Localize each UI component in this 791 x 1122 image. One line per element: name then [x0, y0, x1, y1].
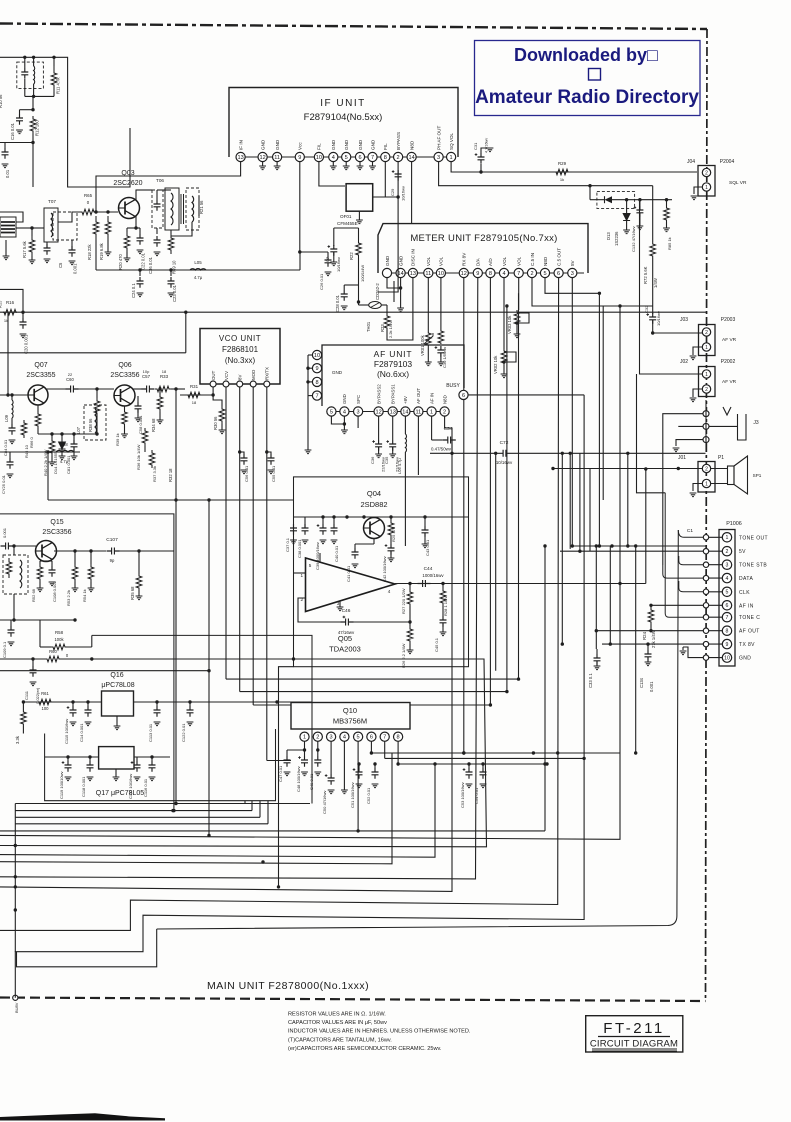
wire Q06 emitter: [124, 406, 126, 410]
wire VCO VCV down to jog: [225, 387, 227, 679]
wire D13 line: [590, 199, 605, 201]
svg-text:R10 56: R10 56: [0, 94, 3, 108]
capacitor C7 10/16wv: [333, 240, 335, 246]
capacitor C45 0.1: [442, 606, 444, 616]
svg-text:R19 6.8k: R19 6.8k: [99, 242, 104, 260]
svg-text:VOL: VOL: [502, 256, 507, 266]
svg-text:2: 2: [726, 549, 729, 555]
wire TH01 leads: [359, 304, 369, 306]
svg-text:C5: C5: [58, 262, 63, 268]
svg-text:10/16wv: 10/16wv: [656, 311, 661, 326]
svg-text:R72 5.6K: R72 5.6K: [643, 266, 648, 284]
wire J03 pin1 gnd: [693, 347, 702, 355]
svg-text:METER UNIT F2879105(No.7xx): METER UNIT F2879105(No.7xx): [410, 233, 557, 244]
svg-text:GND: GND: [739, 656, 751, 662]
capacitor C42 100/16wv: [390, 538, 392, 544]
svg-text:MB3756M: MB3756M: [333, 717, 367, 726]
wire pin3 down: [357, 416, 359, 428]
svg-text:SPC: SPC: [356, 395, 361, 404]
svg-text:D13: D13: [606, 232, 611, 240]
capacitor C109 0.1: [10, 620, 12, 626]
svg-text:6: 6: [726, 603, 729, 609]
svg-text:R17 5.6k: R17 5.6k: [22, 240, 27, 258]
AF UNIT pin 13: [388, 407, 397, 416]
wire IF-IN node down: [95, 200, 97, 212]
svg-text:C105: C105: [0, 530, 1, 540]
wire Q10 pin8 rail: [398, 763, 547, 765]
svg-text:R26 2.2 1/4W: R26 2.2 1/4W: [401, 643, 406, 668]
svg-text:0.001: 0.001: [649, 681, 654, 692]
svg-text:Q16: Q16: [110, 672, 123, 679]
svg-text:Q05: Q05: [338, 634, 352, 643]
VCO UNIT pin MOD: [250, 381, 256, 387]
svg-text:R61: R61: [41, 691, 49, 696]
capacitor C117 10/16wv: [136, 757, 138, 761]
wire R32 vertical: [175, 395, 177, 804]
svg-text:10/16wv: 10/16wv: [336, 257, 341, 272]
svg-text:C34: C34: [444, 426, 453, 432]
capacitor C72 10/16wv: [498, 450, 511, 457]
scanner black bar bottom-left: [0, 1113, 165, 1120]
svg-text:J02: J02: [680, 359, 688, 365]
svg-text:C45 0.1: C45 0.1: [434, 637, 439, 652]
svg-text:Q10: Q10: [343, 706, 357, 715]
svg-text:22: 22: [68, 372, 73, 377]
wire bus vertical from audio box corner: [279, 667, 294, 887]
svg-text:C57: C57: [142, 374, 151, 379]
svg-text:GND: GND: [385, 255, 390, 266]
svg-text:C29: C29: [390, 188, 395, 196]
wire Q17 out: [134, 756, 170, 758]
IF UNIT pin 6 (GND): [355, 152, 364, 161]
wire rail y353: [0, 352, 186, 354]
Q10 pin 8: [394, 732, 403, 741]
IF UNIT pin 10 (FIL): [314, 152, 323, 161]
svg-text:C40 0.01: C40 0.01: [334, 545, 339, 562]
wire vertical x599: [598, 293, 600, 546]
diode D13 arrow: [605, 196, 613, 203]
wire left partial rail4: [15, 823, 268, 825]
svg-text:C108 0.001: C108 0.001: [52, 581, 57, 602]
P1006 pin 2 (5V): [722, 547, 731, 556]
svg-text:R16: R16: [6, 300, 15, 305]
svg-text:A/D: A/D: [488, 258, 493, 266]
wire meter pin13 down: [398, 278, 413, 340]
svg-text:R25 470: R25 470: [391, 526, 396, 542]
wire bus vertical left A1: [208, 500, 210, 835]
wire VCO 8V down to jog: [239, 387, 241, 692]
METER UNIT pin 3 (5V): [568, 268, 577, 277]
wire Q03 bias bottom rail: [96, 269, 300, 271]
svg-text:4: 4: [343, 735, 346, 741]
svg-text:(No.3xx): (No.3xx): [225, 356, 256, 365]
P1006 pin 8 (AF OUT): [722, 626, 731, 635]
svg-text:100: 100: [42, 706, 50, 711]
svg-text:N8D: N8D: [442, 395, 447, 404]
capacitor C35 22/16wv: [392, 416, 394, 440]
svg-text:Q03: Q03: [121, 170, 134, 177]
svg-text:9: 9: [476, 271, 479, 277]
svg-text:2: 2: [705, 330, 708, 336]
capacitor C48 100/16wv: [301, 756, 308, 767]
wire IF pin9 Vcc down: [300, 162, 328, 252]
svg-text:SP1: SP1: [753, 473, 762, 478]
svg-text:8: 8: [397, 735, 400, 741]
svg-text:1: 1: [705, 185, 708, 191]
wire T06 top link: [157, 189, 171, 191]
wire left partial rail1: [15, 803, 245, 805]
IC Q16 uPC78L08 box: [102, 691, 134, 716]
wire jog y692: [240, 691, 507, 693]
svg-text:AF IN: AF IN: [429, 393, 434, 404]
svg-text:C119 100/10wv: C119 100/10wv: [59, 772, 64, 800]
wire Q07 base left: [0, 394, 28, 396]
svg-text:AF IN: AF IN: [739, 603, 754, 609]
T08 coil: [34, 66, 35, 84]
svg-text:J3: J3: [753, 420, 759, 426]
wire riser x186: [185, 312, 187, 353]
METER UNIT block outline: [378, 224, 588, 273]
Q10 pin 5: [354, 732, 363, 741]
wire meter pin12 down long: [463, 278, 465, 753]
svg-text:GND: GND: [342, 394, 347, 404]
IF UNIT pin 14 (N8D): [407, 152, 416, 161]
resistor R52 68: [37, 564, 43, 582]
svg-text:0.001: 0.001: [73, 263, 78, 274]
AF UNIT pin 12: [374, 407, 383, 416]
wire Q06 collector right: [133, 388, 142, 390]
wire J01 pin1 gnd hook: [693, 484, 702, 492]
wire R31 to VCO OUT: [180, 394, 213, 396]
P1006 pin 10 (GND): [722, 653, 731, 662]
speaker SP1: [728, 466, 735, 485]
svg-text:GND: GND: [370, 139, 375, 150]
svg-text:4.7/16wv: 4.7/16wv: [485, 138, 489, 153]
svg-text:(No.6xx): (No.6xx): [377, 369, 409, 379]
Q10 pin 6: [367, 732, 376, 741]
svg-text:1/4W: 1/4W: [653, 278, 658, 288]
wire node to T07: [32, 227, 44, 229]
svg-text:VCV: VCV: [224, 371, 229, 380]
resistor R19 6.8k: [105, 216, 111, 240]
wire meter pin14 gnd: [400, 278, 402, 308]
svg-text:R34 68: R34 68: [151, 418, 156, 432]
wire Q17 gnd: [115, 769, 117, 777]
svg-text:C38 0.001: C38 0.001: [297, 539, 302, 558]
IF UNIT pin 13 (IF IN): [236, 152, 245, 161]
node BU8V bottom-left terminal: [13, 995, 18, 1000]
svg-text:9: 9: [315, 366, 318, 372]
wire Q03 emitter down: [135, 216, 137, 228]
svg-text:AF OUT: AF OUT: [739, 629, 760, 635]
svg-text:INDUCTOR VALUES ARE IN HENRIES: INDUCTOR VALUES ARE IN HENRIES. UNLESS O…: [288, 1029, 471, 1035]
P1006 pin 3 (TONE STB): [722, 560, 731, 569]
svg-text:5V: 5V: [570, 259, 575, 266]
svg-text:IF UNIT: IF UNIT: [320, 98, 366, 109]
ground: [332, 162, 334, 166]
capacitor C16 0.01: [20, 109, 34, 111]
svg-text:RESISTOR VALUES ARE IN Ω. 1/16: RESISTOR VALUES ARE IN Ω. 1/16W.: [288, 1012, 386, 1018]
wire D13 left entry jog: [589, 186, 591, 200]
wire J3 pad3 hook gnd: [676, 440, 703, 446]
wire hook pin7: [665, 493, 703, 617]
svg-text:11: 11: [425, 271, 431, 277]
wire Q03 collector to T06: [136, 190, 152, 200]
METER UNIT pin 6 (C.5 OUT): [554, 268, 563, 277]
METER UNIT pin 12 (RX 8V): [459, 268, 468, 277]
svg-text:R22: R22: [349, 252, 354, 260]
left block outline top: [0, 57, 130, 187]
VCO UNIT pin OUT: [210, 381, 216, 387]
svg-text:GND: GND: [275, 139, 280, 150]
capacitor C38 0.001: [302, 524, 309, 535]
wire meter pin11 down VR01: [427, 278, 429, 330]
svg-text:FIL: FIL: [383, 143, 388, 150]
METER UNIT pin 9 (D/A): [473, 268, 482, 277]
svg-text:J04: J04: [687, 159, 695, 165]
wire rail y670: [0, 670, 209, 672]
resistor R27 220 1/2W: [409, 584, 411, 591]
capacitor C60 22: [66, 386, 79, 393]
VCO UNIT block outline: [200, 329, 280, 385]
METER UNIT pin 13 (DISC IN): [408, 268, 417, 277]
capacitor C33 0.1: [596, 649, 598, 654]
wire Q10 pin6 right rail: [371, 741, 620, 753]
svg-text:BYPASS: BYPASS: [396, 132, 401, 150]
inductor L09: [12, 400, 13, 418]
wire meter pin7 down VR03: [518, 278, 520, 310]
wire C46 to R27/R26 node: [354, 621, 411, 623]
svg-text:C24 0.1: C24 0.1: [131, 283, 136, 298]
svg-text:7: 7: [517, 271, 520, 277]
svg-text:R60: R60: [49, 649, 57, 654]
Q10 pin 4: [340, 732, 349, 741]
svg-text:14: 14: [408, 155, 414, 161]
svg-text:R30 56: R30 56: [213, 416, 218, 430]
svg-text:R36 10k 1/4W: R36 10k 1/4W: [136, 444, 141, 470]
svg-text:R66 0: R66 0: [29, 437, 34, 448]
svg-text:C32: C32: [644, 305, 649, 313]
wire J03 pin2 left: [653, 332, 703, 334]
capacitor C40 0.01: [333, 517, 335, 524]
svg-text:10p: 10p: [143, 369, 150, 374]
svg-text:1: 1: [430, 410, 433, 416]
svg-text:7: 7: [726, 615, 729, 621]
wire pin2 N8D down-right: [445, 416, 452, 453]
wire Q07 collector to C60: [46, 388, 66, 390]
wire long rail y659 to corner: [0, 658, 46, 660]
wire Q17 in: [45, 756, 99, 758]
IF UNIT pin 11 (GND): [273, 152, 282, 161]
wire meter pin1 hook: [387, 278, 401, 288]
T06 coil core: [165, 188, 179, 230]
svg-text:R18 22k: R18 22k: [87, 243, 92, 260]
svg-text:CFM455E: CFM455E: [337, 221, 358, 226]
wire corner y855: [0, 764, 435, 857]
wire Q10 pin1 down: [304, 741, 306, 756]
resistor R87 3.3k: [22, 702, 24, 710]
wire vertical x495 down: [495, 453, 497, 670]
capacitor C50 47/16wv: [328, 774, 335, 785]
resistor R45 10: [21, 420, 27, 438]
P1006 pin 1 (TONE OUT): [722, 533, 731, 542]
svg-text:1: 1: [303, 735, 306, 741]
audio block outline box: [294, 477, 469, 667]
wire Q15 emitter: [39, 561, 41, 564]
wire vertical x15 lower: [14, 804, 16, 952]
svg-text:C33 0.1: C33 0.1: [588, 673, 593, 688]
svg-text:TONE STB: TONE STB: [739, 563, 767, 569]
main unit dash-dot border bottom: [0, 998, 706, 1002]
svg-text:P2002: P2002: [721, 359, 736, 365]
wire pin8 AF OUT left: [596, 630, 703, 632]
svg-text:GND: GND: [358, 139, 363, 150]
resistor R11 4.7k: [51, 66, 57, 92]
capacitor C54 0.01: [482, 764, 484, 768]
METER UNIT pin 14 (GND): [396, 268, 405, 277]
svg-text:R37 3.3k: R37 3.3k: [152, 466, 157, 482]
capacitor C105 0.001: [1, 543, 14, 550]
capacitor C24 0.1: [139, 270, 141, 276]
svg-text:2: 2: [397, 155, 400, 161]
power section inner line: [92, 635, 312, 803]
wire left horizontal R16 line: [0, 311, 707, 313]
wire R33 to R31 node: [171, 388, 185, 390]
inductor L07 dashed: [84, 405, 106, 440]
svg-text:RX/TX: RX/TX: [265, 367, 270, 380]
wire hook pin3: [679, 556, 703, 565]
T07 dashed box: [53, 212, 77, 240]
svg-text:4: 4: [502, 271, 505, 277]
svg-text:C1: C1: [687, 528, 693, 534]
wire OF01 right to C29 node: [373, 196, 398, 198]
svg-text:1: 1: [705, 481, 708, 487]
svg-text:TDA2003: TDA2003: [329, 645, 361, 654]
wire right bus x579: [579, 453, 581, 551]
main unit dash-dot border right: [706, 29, 708, 1001]
svg-text:2: 2: [705, 387, 708, 393]
capacitor C56 0.01: [241, 454, 248, 465]
resistor R36 10k 1/4W: [142, 428, 148, 446]
wire meter pin3 down to rail: [571, 278, 573, 546]
wire C72 rail: [430, 452, 498, 454]
svg-text:1: 1: [450, 155, 453, 161]
svg-text:Downloaded by□: Downloaded by□: [514, 45, 658, 65]
wire Q10 pin8 down: [397, 741, 399, 764]
AF UNIT pin 8: [312, 377, 321, 386]
wire Q15 collector right: [54, 550, 106, 552]
wire right bus x590: [589, 469, 591, 552]
svg-text:P1006: P1006: [726, 521, 742, 527]
capacitor C107 9p: [107, 548, 120, 555]
svg-text:R24: R24: [642, 631, 647, 640]
wire C60 to Q06 base: [78, 388, 114, 390]
svg-text:C117 10/16wv: C117 10/16wv: [128, 774, 133, 799]
ground Q10 pin4: [341, 790, 348, 794]
wire pin6 AF IN left: [651, 604, 703, 606]
wire IF pin10 down to OF01: [319, 162, 345, 186]
svg-text:Q06: Q06: [118, 362, 131, 369]
capacitor C41 0.01: [354, 544, 356, 548]
svg-text:C39 1000/16wv: C39 1000/16wv: [315, 542, 320, 570]
svg-text:C134: C134: [639, 677, 644, 688]
connector J3 pads: [703, 411, 709, 417]
svg-text:0.01: 0.01: [5, 169, 10, 178]
svg-text:10/16wv: 10/16wv: [496, 460, 513, 465]
svg-text:C54 0.01: C54 0.01: [474, 787, 479, 804]
AF UNIT pin 10: [312, 350, 321, 359]
wire amp pin1 left: [294, 572, 306, 574]
wire Q04 collector up: [373, 516, 375, 519]
resistor R12 100: [30, 116, 36, 134]
svg-text:C14 0.001: C14 0.001: [79, 723, 84, 742]
svg-text:R31: R31: [190, 384, 199, 389]
svg-text:2: 2: [530, 271, 533, 277]
wire C7 top: [333, 228, 335, 240]
wire Q15 base left: [14, 545, 36, 547]
wire staircase s2 to rounded corner: [157, 530, 679, 929]
resistor R31 18: [185, 392, 203, 398]
svg-text:F2868101: F2868101: [222, 345, 259, 354]
capacitor C119 100/10wv: [67, 757, 69, 761]
svg-text:C122 0.01: C122 0.01: [181, 723, 186, 742]
svg-text:L08: L08: [60, 442, 68, 447]
wire right bus x610: [609, 546, 611, 644]
svg-text:R28 1 1/4W: R28 1 1/4W: [443, 595, 448, 616]
svg-text:R23: R23: [380, 324, 385, 332]
METER UNIT pin 8 (A/D): [486, 268, 495, 277]
svg-text:J01: J01: [678, 455, 686, 461]
svg-text:100k: 100k: [54, 637, 64, 642]
capacitor C28 0.01: [343, 285, 345, 290]
svg-text:1: 1: [705, 345, 708, 351]
AF UNIT pin 1: [427, 407, 436, 416]
svg-text:R69 10: R69 10: [172, 260, 177, 274]
wire bus horizontal lower y804: [176, 803, 310, 805]
svg-text:+8V: +8V: [403, 396, 408, 404]
METER UNIT pin 4 (VOL): [499, 268, 508, 277]
diode D13 1S2236 dashed box: [597, 192, 635, 209]
svg-text:0.47/50wv: 0.47/50wv: [431, 447, 452, 452]
svg-text:C36 0.01: C36 0.01: [148, 256, 153, 274]
svg-text:BYPASS2: BYPASS2: [376, 384, 381, 404]
wire Q16 out: [134, 701, 313, 703]
wire C34 right to corner n4: [0, 440, 456, 891]
svg-text:Q04: Q04: [367, 489, 381, 498]
wire L08 branch: [48, 451, 80, 453]
IF UNIT pin 5 (GND): [342, 152, 351, 161]
wire J02 pin2 gnd: [693, 389, 702, 397]
svg-text:7: 7: [371, 155, 374, 161]
wire right bus x570: [569, 453, 571, 549]
wire Q10 pin2 down: [317, 741, 319, 756]
resistor R26 2.2 1/4W: [409, 622, 411, 626]
svg-text:(T)CAPACITORS ARE TANTALUM, 16: (T)CAPACITORS ARE TANTALUM, 16wv.: [288, 1037, 392, 1043]
svg-text:C22 0.01: C22 0.01: [141, 252, 146, 270]
svg-text:L06 4.7μ: L06 4.7μ: [397, 458, 402, 474]
capacitor C116 0.01: [151, 757, 153, 761]
IF UNIT pin row wire: [236, 156, 455, 158]
wire R72 vertical: [652, 186, 654, 242]
resistor R72 5.6k 1/4W: [650, 242, 656, 258]
svg-text:C26 0.01: C26 0.01: [319, 273, 324, 290]
T07 cap: [44, 244, 51, 255]
svg-text:GND: GND: [260, 139, 265, 150]
wire amp pin2 feedback: [298, 598, 341, 622]
svg-text:R15: R15: [0, 300, 3, 308]
svg-text:11: 11: [415, 410, 421, 416]
wire IF pin1 SQ VOL right to J04: [451, 162, 697, 172]
